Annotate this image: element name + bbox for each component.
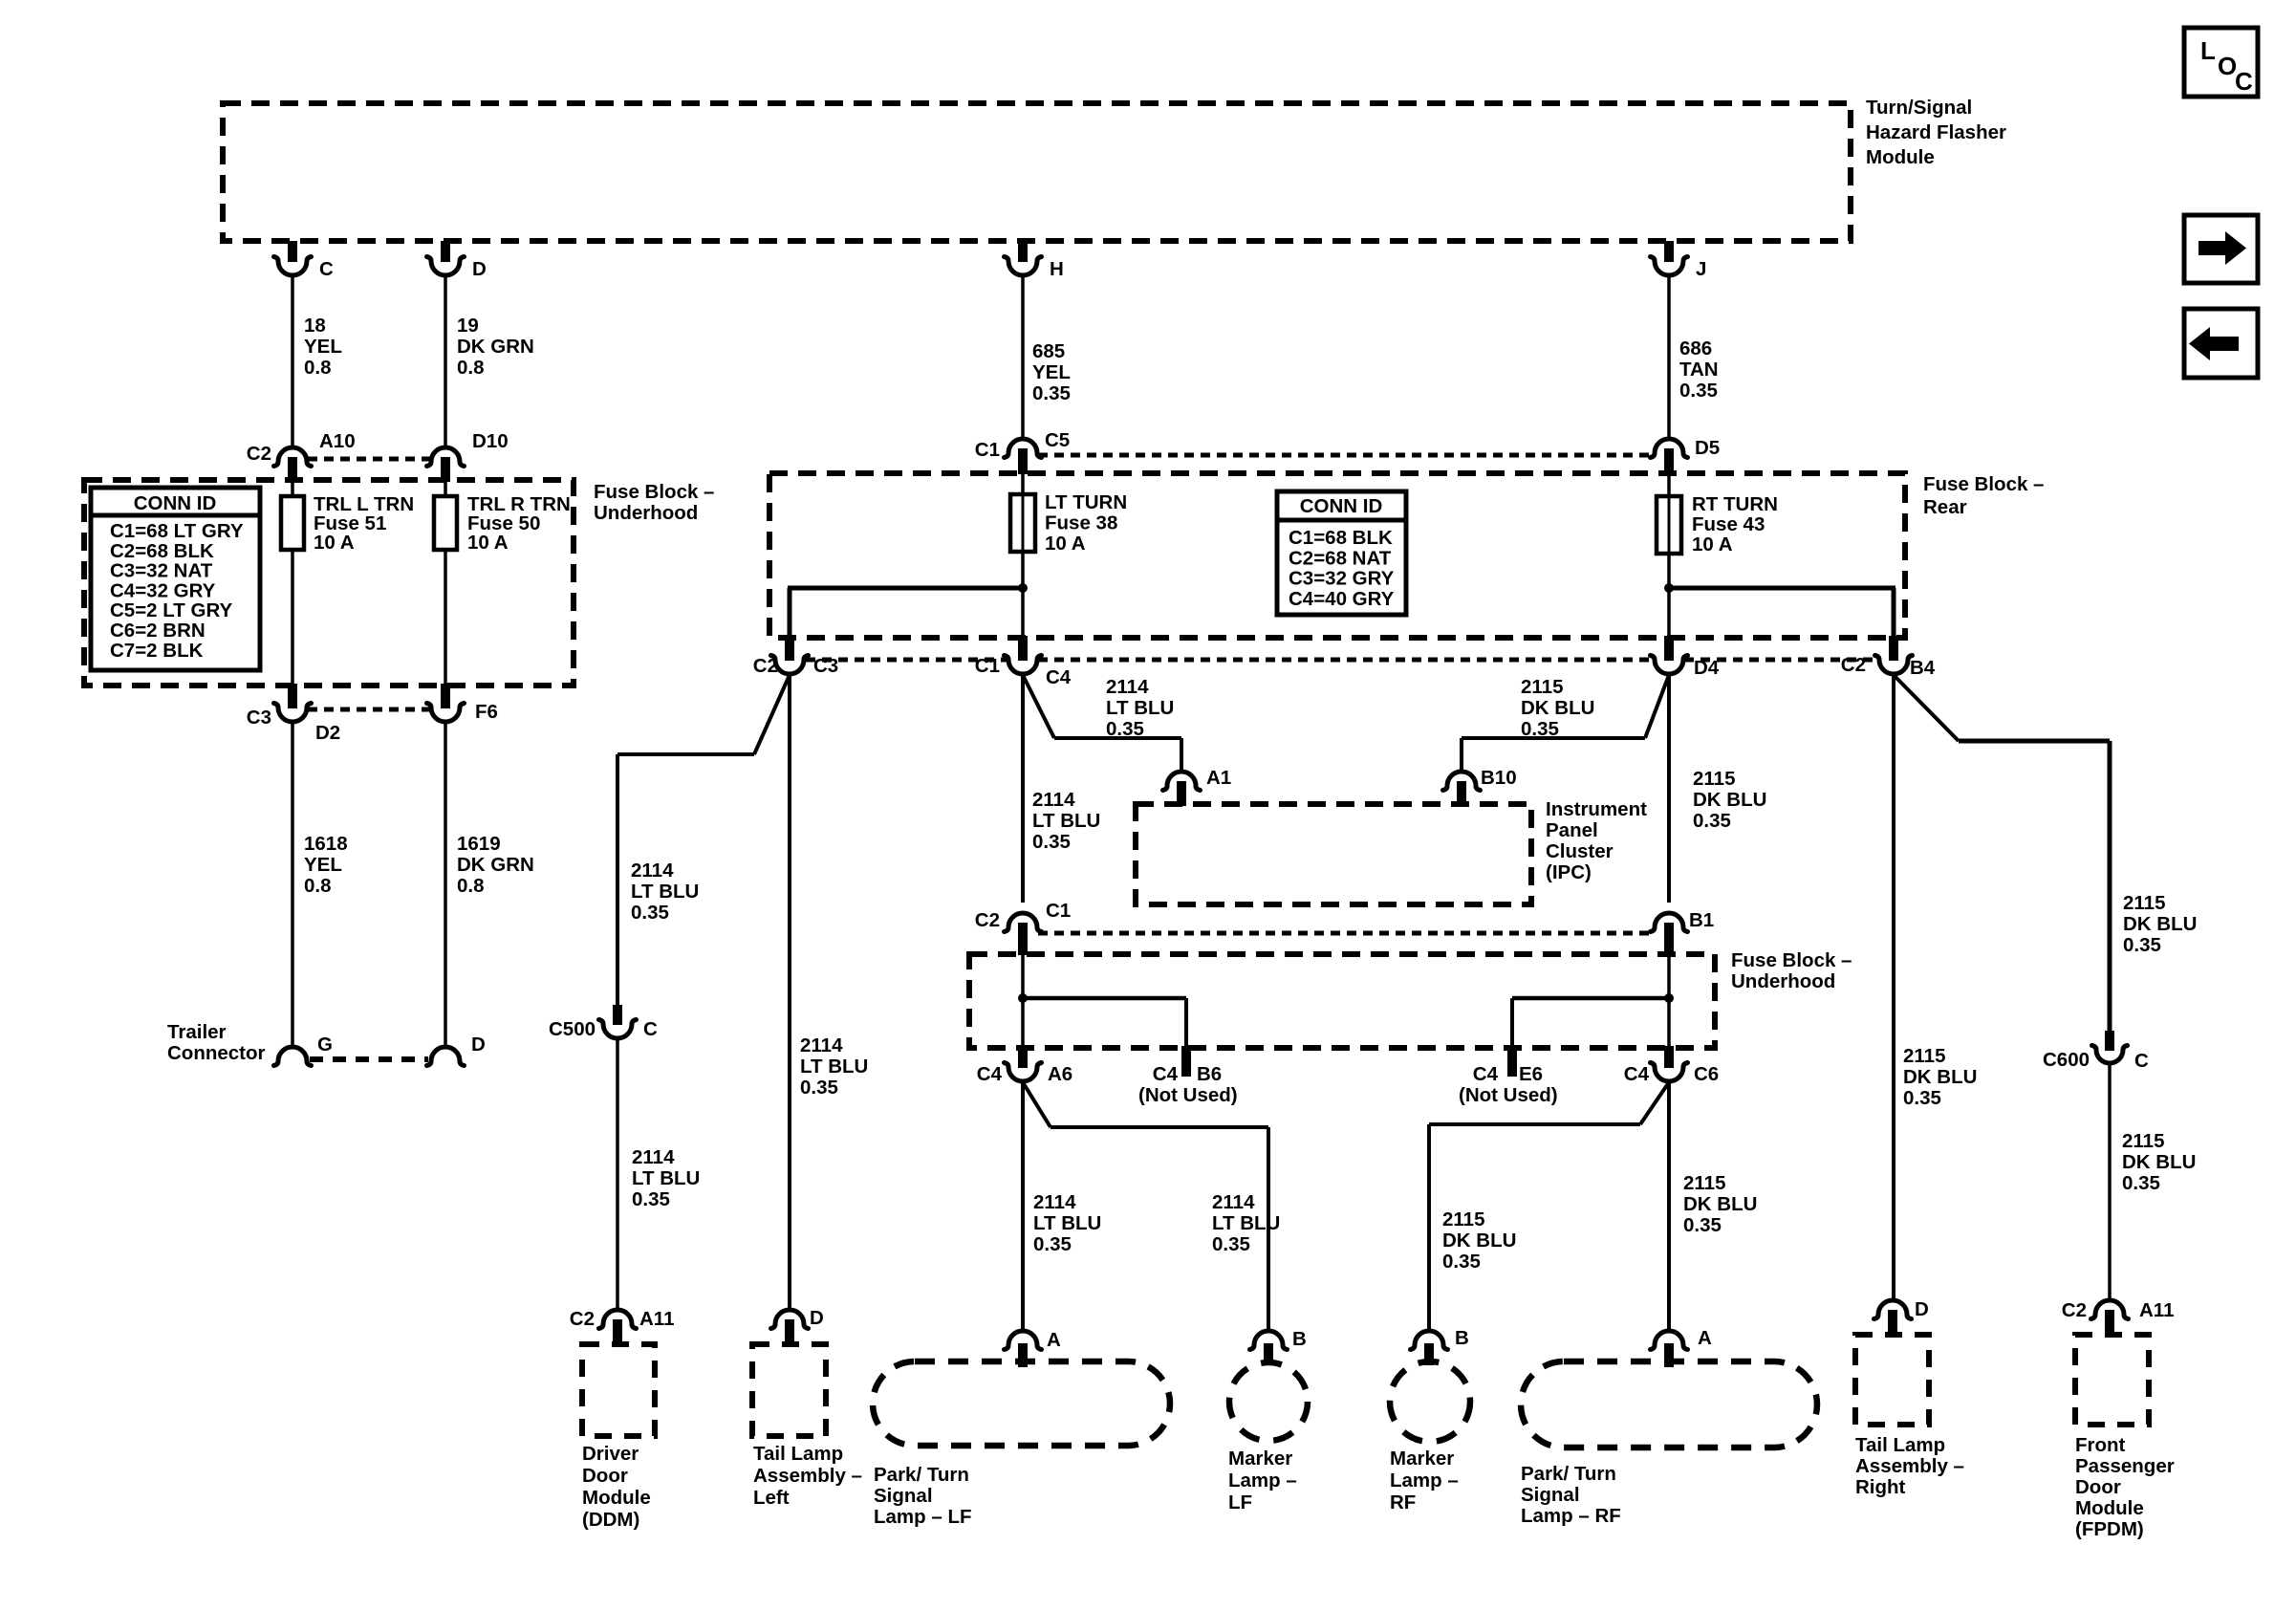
svg-text:DK GRN: DK GRN bbox=[457, 336, 534, 358]
svg-text:2114: 2114 bbox=[1033, 1191, 1076, 1213]
wire fuse 38 to C4 bbox=[1021, 552, 1025, 638]
svg-text:D: D bbox=[472, 258, 487, 280]
wire C3 to tail lamp left bbox=[788, 675, 791, 1309]
svg-text:C4: C4 bbox=[1624, 1063, 1650, 1085]
svg-text:A1: A1 bbox=[1206, 767, 1231, 789]
svg-text:0.35: 0.35 bbox=[1521, 718, 1559, 740]
wire fuse 43 to D4 bbox=[1667, 554, 1671, 638]
wire C500 to DDM bbox=[616, 1039, 619, 1309]
Park/Turn Signal Lamp RF outline bbox=[1521, 1361, 1817, 1448]
svg-text:2115: 2115 bbox=[2122, 1130, 2164, 1152]
svg-text:Right: Right bbox=[1855, 1476, 1906, 1498]
connector pin A (park/turn LF) bbox=[1005, 1329, 1062, 1367]
fuse F43 RT TURN bbox=[1657, 493, 1778, 555]
svg-text:LT BLU: LT BLU bbox=[800, 1056, 868, 1078]
label wire 2115 DK BLU 0.35 (FPDM upper) bbox=[2123, 892, 2197, 956]
right arrow legend box bbox=[2184, 215, 2258, 283]
label Tail Lamp Assembly - Right bbox=[1855, 1434, 1964, 1498]
svg-text:LF: LF bbox=[1228, 1491, 1252, 1513]
left arrow legend box bbox=[2184, 309, 2258, 378]
label wire 2114 LT BLU 0.35 (park LF) bbox=[1033, 1191, 1101, 1255]
svg-text:A: A bbox=[1047, 1329, 1061, 1351]
connector C4 pin E6 (not used) bbox=[1459, 1046, 1558, 1106]
Tail Lamp Assembly - Left box bbox=[752, 1344, 826, 1436]
Marker Lamp RF outline bbox=[1390, 1361, 1470, 1442]
trailer connector dashed link bbox=[310, 1056, 428, 1062]
connector line rear bottom mid bbox=[1038, 658, 1654, 663]
connector pin B1 bbox=[1651, 909, 1715, 955]
connector pin D (tail lamp left) bbox=[771, 1307, 824, 1344]
svg-text:J: J bbox=[1696, 258, 1706, 280]
label Park/Turn Signal Lamp - LF bbox=[874, 1464, 972, 1528]
svg-text:DK BLU: DK BLU bbox=[1521, 697, 1594, 719]
svg-text:C4: C4 bbox=[1473, 1063, 1499, 1085]
label wire 2115 DK BLU 0.35 (FPDM lower) bbox=[2122, 1130, 2196, 1194]
svg-text:10 A: 10 A bbox=[314, 532, 355, 554]
svg-text:B1: B1 bbox=[1689, 909, 1714, 931]
svg-text:2114: 2114 bbox=[1212, 1191, 1255, 1213]
wire fuse 50 to F6 bbox=[444, 550, 447, 686]
svg-text:D: D bbox=[1915, 1298, 1929, 1320]
svg-text:YEL: YEL bbox=[304, 336, 342, 358]
svg-text:D10: D10 bbox=[472, 430, 509, 452]
label Turn/Signal Hazard Flasher Module bbox=[1866, 97, 2006, 168]
trailer connector pin G bbox=[274, 1034, 333, 1066]
svg-text:18: 18 bbox=[304, 315, 326, 337]
svg-text:A11: A11 bbox=[639, 1308, 674, 1330]
svg-text:C2: C2 bbox=[1841, 654, 1866, 676]
svg-text:A11: A11 bbox=[2139, 1299, 2174, 1321]
connector C1 pin C4 (rear) bbox=[975, 636, 1072, 688]
svg-text:DK BLU: DK BLU bbox=[1693, 789, 1766, 811]
svg-text:LT BLU: LT BLU bbox=[1106, 697, 1174, 719]
fuse F51 TRL L TRN bbox=[281, 493, 414, 554]
Front Passenger Door Module box bbox=[2075, 1335, 2149, 1425]
wire B4 branch to FPDM bbox=[1894, 675, 2110, 1031]
svg-text:C1: C1 bbox=[1046, 900, 1071, 922]
svg-text:C3=32 NAT: C3=32 NAT bbox=[110, 560, 213, 582]
connector C2 pin B4 bbox=[1841, 636, 1936, 679]
svg-text:2115: 2115 bbox=[1903, 1045, 1945, 1067]
svg-text:C: C bbox=[319, 258, 334, 280]
inline connector C600 pin C bbox=[2043, 1031, 2149, 1072]
svg-text:Rear: Rear bbox=[1923, 496, 1967, 518]
svg-text:0.35: 0.35 bbox=[632, 1188, 670, 1210]
svg-text:C3: C3 bbox=[247, 707, 271, 729]
junction node fuse 43 bbox=[1664, 583, 1674, 593]
connector pin B (marker LF) bbox=[1250, 1328, 1307, 1365]
svg-text:H: H bbox=[1050, 258, 1064, 280]
label wire 2114 LT BLU 0.35 (tail lamp left) bbox=[800, 1034, 868, 1099]
svg-text:C2: C2 bbox=[570, 1308, 595, 1330]
svg-text:0.35: 0.35 bbox=[2123, 934, 2161, 956]
svg-text:2114: 2114 bbox=[1106, 676, 1149, 698]
svg-text:LT BLU: LT BLU bbox=[1032, 810, 1100, 832]
svg-text:CONN ID: CONN ID bbox=[1300, 495, 1383, 517]
svg-text:A10: A10 bbox=[319, 430, 356, 452]
label wire 2115 DK BLU 0.35 (marker RF) bbox=[1442, 1208, 1516, 1273]
svg-text:DK BLU: DK BLU bbox=[2123, 913, 2197, 935]
wire fuse 51 to C3 bbox=[291, 550, 294, 686]
svg-text:Fuse 38: Fuse 38 bbox=[1045, 512, 1117, 534]
svg-text:0.8: 0.8 bbox=[457, 875, 485, 897]
svg-text:C1: C1 bbox=[975, 655, 1000, 677]
svg-text:19: 19 bbox=[457, 315, 479, 337]
connector C2 pin A11 (DDM) bbox=[570, 1308, 675, 1344]
svg-text:Fuse 43: Fuse 43 bbox=[1692, 513, 1765, 535]
svg-text:0.35: 0.35 bbox=[631, 902, 669, 924]
svg-text:2114: 2114 bbox=[631, 860, 674, 882]
connector line C2 A10-D10 bbox=[308, 457, 430, 462]
svg-text:LT BLU: LT BLU bbox=[632, 1167, 700, 1189]
connector pin F6 bbox=[427, 684, 498, 723]
svg-text:Lamp – LF: Lamp – LF bbox=[874, 1506, 972, 1528]
label wire 19 DK GRN 0.8 bbox=[457, 315, 534, 379]
svg-text:B10: B10 bbox=[1481, 767, 1517, 789]
svg-text:0.35: 0.35 bbox=[800, 1077, 838, 1099]
svg-text:Door: Door bbox=[582, 1465, 628, 1487]
wire 18 YEL bbox=[291, 276, 294, 446]
svg-text:Fuse Block –: Fuse Block – bbox=[594, 481, 714, 503]
bus wire to C3 tap bbox=[788, 588, 1023, 638]
label Front Passenger Door Module (FPDM) bbox=[2075, 1434, 2175, 1540]
wire 19 DK GRN bbox=[444, 276, 447, 446]
CONN ID table (left) bbox=[91, 488, 260, 670]
svg-text:C4=40 GRY: C4=40 GRY bbox=[1289, 588, 1395, 610]
LOC legend box bbox=[2184, 28, 2258, 97]
wire C6 branch to marker RF bbox=[1429, 1082, 1669, 1330]
label wire 18 YEL 0.8 bbox=[304, 315, 342, 379]
svg-text:C2: C2 bbox=[2062, 1299, 2087, 1321]
connector pin D5 bbox=[1651, 437, 1721, 474]
svg-text:Hazard Flasher: Hazard Flasher bbox=[1866, 121, 2006, 143]
label wire 1618 YEL 0.8 bbox=[304, 833, 348, 897]
wire 685 YEL bbox=[1021, 276, 1025, 438]
fuse F50 TRL R TRN bbox=[434, 493, 571, 554]
svg-text:RF: RF bbox=[1390, 1491, 1416, 1513]
svg-text:10 A: 10 A bbox=[1692, 533, 1733, 555]
label Marker Lamp - RF bbox=[1390, 1448, 1459, 1513]
svg-text:C4: C4 bbox=[1046, 666, 1072, 688]
svg-text:C4: C4 bbox=[1153, 1063, 1179, 1085]
svg-text:LT BLU: LT BLU bbox=[631, 881, 699, 903]
module pin J connector bbox=[1651, 241, 1707, 280]
svg-text:D: D bbox=[471, 1034, 486, 1056]
svg-text:2115: 2115 bbox=[1683, 1172, 1725, 1194]
svg-text:YEL: YEL bbox=[304, 854, 342, 876]
CONN ID table (rear) bbox=[1277, 491, 1406, 615]
connector pin D10 bbox=[427, 430, 509, 482]
label Instrument Panel Cluster (IPC) bbox=[1546, 798, 1647, 883]
junction node fuse 38 bbox=[1018, 583, 1028, 593]
label wire 2115 DK BLU 0.35 (B10 branch) bbox=[1521, 676, 1594, 740]
connector C4 pin A6 bbox=[977, 1046, 1072, 1085]
svg-text:B4: B4 bbox=[1910, 657, 1936, 679]
connector pin B10 (IPC) bbox=[1443, 767, 1517, 806]
connector line C3 D2-F6 bbox=[308, 708, 430, 712]
svg-text:0.8: 0.8 bbox=[304, 357, 332, 379]
svg-text:(Not Used): (Not Used) bbox=[1459, 1084, 1558, 1106]
svg-text:Tail Lamp: Tail Lamp bbox=[1855, 1434, 1945, 1456]
svg-text:Lamp – RF: Lamp – RF bbox=[1521, 1505, 1621, 1527]
module pin D connector bbox=[427, 241, 487, 280]
label Driver Door Module (DDM) bbox=[582, 1443, 651, 1531]
svg-text:Signal: Signal bbox=[874, 1485, 933, 1507]
connector C2 pin A10 bbox=[247, 430, 356, 482]
connector C3 pin D2 bbox=[247, 684, 340, 744]
svg-text:Fuse Block –: Fuse Block – bbox=[1923, 473, 2044, 495]
svg-text:C2: C2 bbox=[247, 443, 271, 465]
connector pin D (tail lamp right) bbox=[1874, 1298, 1929, 1335]
svg-text:E6: E6 bbox=[1519, 1063, 1543, 1085]
label Trailer Connector bbox=[167, 1021, 266, 1064]
wire 1619 DK GRN bbox=[444, 723, 447, 1046]
svg-text:C2=68 NAT: C2=68 NAT bbox=[1289, 547, 1392, 569]
svg-text:B6: B6 bbox=[1197, 1063, 1222, 1085]
svg-text:Assembly –: Assembly – bbox=[1855, 1455, 1964, 1477]
bus wire to B4 tap bbox=[1669, 588, 1895, 638]
Fuse Block - Underhood box (middle) bbox=[969, 954, 1715, 1048]
svg-text:Marker: Marker bbox=[1390, 1448, 1454, 1469]
svg-text:(Not Used): (Not Used) bbox=[1138, 1084, 1238, 1106]
svg-text:0.35: 0.35 bbox=[2122, 1172, 2160, 1194]
svg-text:C1: C1 bbox=[975, 439, 1000, 461]
wire into fuse 38 bbox=[1021, 474, 1025, 494]
svg-text:C1=68 BLK: C1=68 BLK bbox=[1289, 527, 1393, 549]
Instrument Panel Cluster box bbox=[1136, 804, 1531, 904]
wire C600 to FPDM bbox=[2108, 1065, 2112, 1299]
label wire 1619 DK GRN 0.8 bbox=[457, 833, 534, 897]
svg-text:C2: C2 bbox=[753, 655, 778, 677]
svg-text:(DDM): (DDM) bbox=[582, 1509, 639, 1531]
svg-text:DK BLU: DK BLU bbox=[1903, 1066, 1977, 1088]
svg-text:686: 686 bbox=[1679, 337, 1712, 359]
svg-text:0.8: 0.8 bbox=[457, 357, 485, 379]
connector C2 pin C1 (mid) bbox=[975, 900, 1071, 955]
svg-text:Assembly –: Assembly – bbox=[753, 1465, 862, 1487]
label wire 2115 DK BLU 0.35 (park RF) bbox=[1683, 1172, 1757, 1236]
connector pin D4 bbox=[1651, 636, 1720, 679]
wire into fuse 50 bbox=[444, 482, 447, 496]
svg-text:Instrument: Instrument bbox=[1546, 798, 1647, 820]
connector C4 pin C6 bbox=[1624, 1046, 1719, 1085]
svg-text:C2=68 BLK: C2=68 BLK bbox=[110, 540, 214, 562]
connector C4 pin B6 (not used) bbox=[1138, 1046, 1238, 1106]
connector line C1-B1 bbox=[1038, 931, 1654, 936]
svg-text:0.35: 0.35 bbox=[1693, 810, 1731, 832]
svg-text:2114: 2114 bbox=[1032, 789, 1075, 811]
svg-text:C5=2 LT GRY: C5=2 LT GRY bbox=[110, 599, 232, 621]
svg-text:D5: D5 bbox=[1695, 437, 1720, 459]
svg-text:0.35: 0.35 bbox=[1442, 1251, 1481, 1273]
wire A6 branch to marker LF bbox=[1023, 1082, 1268, 1330]
svg-text:C4=32 GRY: C4=32 GRY bbox=[110, 579, 216, 601]
junction node C6 tap bbox=[1664, 993, 1674, 1003]
svg-text:Tail Lamp: Tail Lamp bbox=[753, 1443, 843, 1465]
svg-text:Passenger: Passenger bbox=[2075, 1455, 2175, 1477]
bus wire to B6 bbox=[1023, 998, 1186, 1048]
Tail Lamp Assembly - Right box bbox=[1855, 1335, 1929, 1425]
trailer connector pin D bbox=[427, 1034, 486, 1066]
svg-text:0.35: 0.35 bbox=[1212, 1233, 1250, 1255]
wire B4 to tail lamp right bbox=[1892, 675, 1895, 1299]
connector line rear bottom left bbox=[806, 658, 1007, 663]
svg-text:LT BLU: LT BLU bbox=[1212, 1212, 1280, 1234]
label Fuse Block - Underhood (middle) bbox=[1731, 949, 1852, 992]
svg-text:0.35: 0.35 bbox=[1032, 831, 1071, 853]
svg-text:Underhood: Underhood bbox=[594, 502, 698, 524]
svg-text:Park/ Turn: Park/ Turn bbox=[874, 1464, 969, 1486]
Fuse Block - Underhood box (left) bbox=[84, 480, 574, 686]
svg-text:Fuse Block –: Fuse Block – bbox=[1731, 949, 1852, 971]
svg-text:Trailer: Trailer bbox=[167, 1021, 227, 1043]
Fuse Block - Rear box bbox=[769, 473, 1905, 638]
svg-text:2115: 2115 bbox=[1693, 768, 1735, 790]
svg-text:F6: F6 bbox=[475, 701, 498, 723]
connector pin A1 (IPC) bbox=[1163, 767, 1232, 806]
label wire 2114 LT BLU 0.35 (marker LF) bbox=[1212, 1191, 1280, 1255]
svg-text:Signal: Signal bbox=[1521, 1484, 1580, 1506]
svg-text:Underhood: Underhood bbox=[1731, 970, 1835, 992]
Driver Door Module box bbox=[582, 1344, 655, 1436]
svg-text:LT BLU: LT BLU bbox=[1033, 1212, 1101, 1234]
connector line rear bottom right bbox=[1684, 658, 1878, 663]
svg-text:DK BLU: DK BLU bbox=[1442, 1230, 1516, 1252]
svg-text:2114: 2114 bbox=[800, 1034, 843, 1056]
bus wire to E6 bbox=[1512, 998, 1669, 1048]
label Fuse Block - Underhood (left) bbox=[594, 481, 714, 524]
svg-text:1619: 1619 bbox=[457, 833, 501, 855]
svg-text:A6: A6 bbox=[1048, 1063, 1072, 1085]
svg-text:LT TURN: LT TURN bbox=[1045, 491, 1127, 513]
svg-text:C: C bbox=[2134, 1050, 2149, 1072]
svg-text:DK BLU: DK BLU bbox=[1683, 1193, 1757, 1215]
svg-text:Park/ Turn: Park/ Turn bbox=[1521, 1463, 1616, 1485]
fuse F38 LT TURN bbox=[1010, 491, 1127, 555]
svg-text:B: B bbox=[1292, 1328, 1307, 1350]
svg-text:C600: C600 bbox=[2043, 1049, 2090, 1071]
svg-text:D2: D2 bbox=[315, 722, 340, 744]
label Fuse Block - Rear bbox=[1923, 473, 2044, 518]
svg-text:Front: Front bbox=[2075, 1434, 2126, 1456]
svg-text:0.35: 0.35 bbox=[1679, 380, 1718, 402]
svg-text:685: 685 bbox=[1032, 340, 1065, 362]
svg-text:TAN: TAN bbox=[1679, 359, 1719, 381]
module pin C connector bbox=[274, 241, 335, 280]
connector C1 pin C5 bbox=[975, 429, 1070, 474]
svg-text:C: C bbox=[2235, 67, 2253, 96]
svg-text:Driver: Driver bbox=[582, 1443, 639, 1465]
wire D4 to B1 bbox=[1667, 675, 1671, 903]
svg-text:YEL: YEL bbox=[1032, 361, 1071, 383]
svg-text:2115: 2115 bbox=[2123, 892, 2165, 914]
svg-text:Turn/Signal: Turn/Signal bbox=[1866, 97, 1972, 119]
module pin H connector bbox=[1005, 241, 1064, 280]
junction node A6 tap bbox=[1018, 993, 1028, 1003]
label Marker Lamp - LF bbox=[1228, 1448, 1297, 1513]
wire C4 to C1 (IPC feed) bbox=[1021, 675, 1025, 903]
svg-text:0.35: 0.35 bbox=[1032, 382, 1071, 404]
wire C4 branch to A1 bbox=[1023, 675, 1181, 771]
label wire 2114 LT BLU 0.35 (A1 branch) bbox=[1106, 676, 1174, 740]
label wire 2114 LT BLU 0.35 (C1 drop) bbox=[1032, 789, 1100, 853]
wire C1 through fuse block bbox=[1021, 955, 1025, 1048]
svg-text:C6=2 BRN: C6=2 BRN bbox=[110, 620, 206, 642]
connector line C5-D5 bbox=[1038, 453, 1654, 458]
wire into fuse 51 bbox=[291, 482, 294, 496]
wire into fuse 43 bbox=[1667, 474, 1671, 496]
wire C3 branch to C500 bbox=[617, 675, 790, 1005]
connector C2 pin A11 (FPDM) bbox=[2062, 1299, 2175, 1335]
svg-text:0.35: 0.35 bbox=[1683, 1214, 1722, 1236]
svg-text:Module: Module bbox=[1866, 146, 1935, 168]
label wire 2115 DK BLU 0.35 (B1 drop) bbox=[1693, 768, 1766, 832]
svg-text:0.8: 0.8 bbox=[304, 875, 332, 897]
svg-text:Left: Left bbox=[753, 1487, 790, 1509]
svg-text:A: A bbox=[1698, 1327, 1712, 1349]
wire 1618 YEL bbox=[291, 723, 294, 1046]
svg-text:1618: 1618 bbox=[304, 833, 348, 855]
label wire 685 YEL 0.35 bbox=[1032, 340, 1071, 404]
svg-text:0.35: 0.35 bbox=[1903, 1087, 1941, 1109]
svg-text:Lamp –: Lamp – bbox=[1390, 1469, 1459, 1491]
label wire 2114 LT BLU 0.35 (C500 branch) bbox=[631, 860, 699, 924]
svg-text:G: G bbox=[317, 1034, 333, 1056]
svg-text:10 A: 10 A bbox=[467, 532, 509, 554]
Park/Turn Signal Lamp LF outline bbox=[873, 1361, 1170, 1446]
label Tail Lamp Assembly - Left bbox=[753, 1443, 862, 1509]
label wire 2114 LT BLU 0.35 (DDM) bbox=[632, 1146, 700, 1210]
svg-text:DK GRN: DK GRN bbox=[457, 854, 534, 876]
svg-text:(FPDM): (FPDM) bbox=[2075, 1518, 2144, 1540]
connector pin B (marker RF) bbox=[1411, 1327, 1469, 1365]
svg-text:C2: C2 bbox=[975, 909, 1000, 931]
svg-text:10 A: 10 A bbox=[1045, 533, 1086, 555]
svg-text:Module: Module bbox=[582, 1487, 651, 1509]
svg-text:C4: C4 bbox=[977, 1063, 1003, 1085]
svg-text:C5: C5 bbox=[1045, 429, 1070, 451]
svg-text:C6: C6 bbox=[1694, 1063, 1719, 1085]
svg-text:Marker: Marker bbox=[1228, 1448, 1292, 1469]
svg-text:0.35: 0.35 bbox=[1033, 1233, 1072, 1255]
svg-text:C: C bbox=[643, 1018, 658, 1040]
Turn/Signal Hazard Flasher Module box bbox=[223, 103, 1851, 241]
Marker Lamp LF outline bbox=[1229, 1362, 1308, 1441]
label wire 686 TAN 0.35 bbox=[1679, 337, 1719, 402]
svg-text:B: B bbox=[1455, 1327, 1469, 1349]
wire A6 to park/turn LF bbox=[1021, 1082, 1025, 1330]
wire B1 through fuse block bbox=[1667, 955, 1671, 1048]
svg-text:CONN ID: CONN ID bbox=[134, 492, 217, 514]
wire D4 branch to B10 bbox=[1462, 675, 1669, 771]
svg-text:C3=32 GRY: C3=32 GRY bbox=[1289, 568, 1395, 590]
wire 686 TAN bbox=[1667, 276, 1671, 438]
connector C2 pin C3 (rear) bbox=[753, 636, 838, 677]
svg-text:Module: Module bbox=[2075, 1497, 2144, 1519]
inline connector C500 pin C bbox=[549, 1005, 658, 1040]
svg-text:DK BLU: DK BLU bbox=[2122, 1151, 2196, 1173]
svg-text:2114: 2114 bbox=[632, 1146, 675, 1168]
svg-text:2115: 2115 bbox=[1521, 676, 1563, 698]
svg-text:C7=2 BLK: C7=2 BLK bbox=[110, 640, 204, 662]
svg-text:Lamp –: Lamp – bbox=[1228, 1469, 1297, 1491]
svg-text:C500: C500 bbox=[549, 1018, 596, 1040]
svg-text:D: D bbox=[810, 1307, 824, 1329]
svg-text:L: L bbox=[2200, 36, 2216, 65]
connector pin A (park/turn RF) bbox=[1651, 1327, 1713, 1367]
svg-text:RT TURN: RT TURN bbox=[1692, 493, 1778, 515]
wire C6 to park/turn RF bbox=[1667, 1082, 1671, 1330]
